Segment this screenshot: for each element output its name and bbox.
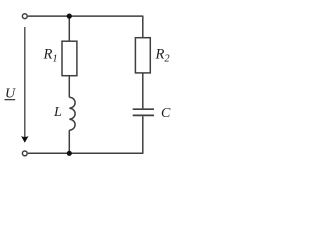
wire R1 to L [68,76,70,98]
wire L to bottom [68,130,70,153]
wire bottom [28,116,143,153]
voltage arrow U head [21,136,28,143]
node bottom junction [67,151,72,156]
svg-text:R1: R1 [43,47,58,65]
svg-text:L: L [53,105,62,120]
voltage arrow U line [24,27,26,138]
svg-text:R2: R2 [155,46,171,64]
wire middle branch upper [68,16,70,41]
resistor R2 [135,38,150,73]
label U underline [5,99,16,101]
node top junction [67,14,72,19]
capacitor C plates [133,108,154,110]
inductor L [69,97,75,130]
resistor R1 [62,41,77,75]
svg-text:C: C [161,106,171,121]
wire R2 to C [142,73,144,109]
terminal top-left [22,14,27,19]
terminal bottom-left [22,151,27,156]
wire top [28,16,143,38]
